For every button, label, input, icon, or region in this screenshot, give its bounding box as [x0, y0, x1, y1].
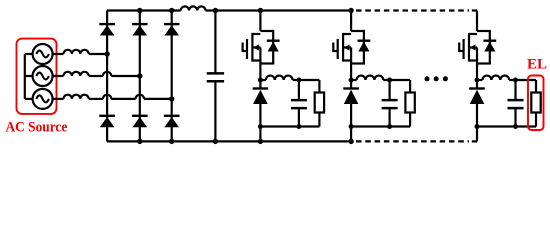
svg-text:AC Source: AC Source	[6, 120, 68, 136]
svg-text:EL: EL	[527, 57, 547, 73]
